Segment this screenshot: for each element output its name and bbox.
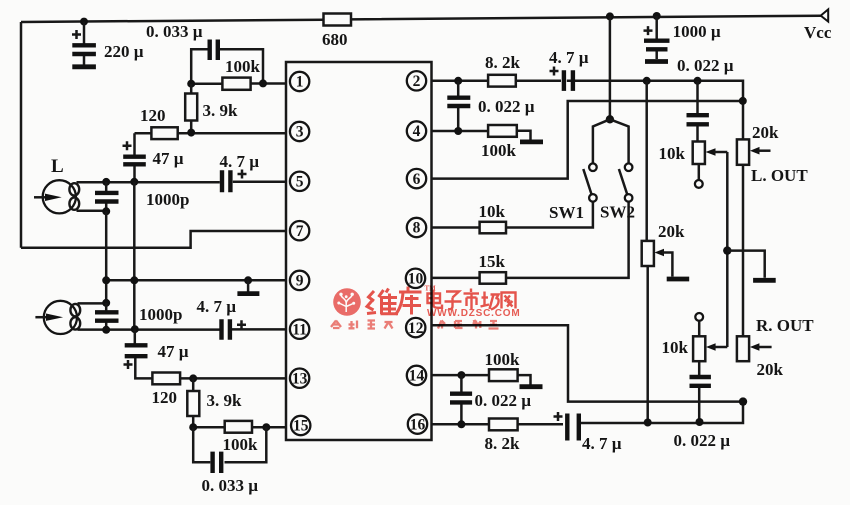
svg-text:WWW.DZSC.COM: WWW.DZSC.COM bbox=[427, 308, 520, 319]
svg-text:0. 022 µ: 0. 022 µ bbox=[677, 56, 734, 75]
wire pin12 bbox=[432, 325, 744, 401]
svg-text:100k: 100k bbox=[223, 435, 259, 454]
node pin4/0.022 bbox=[454, 127, 462, 135]
svg-text:100k: 100k bbox=[225, 57, 261, 76]
node pin14/0.022 bbox=[457, 371, 465, 379]
node 100k/pin1 bbox=[259, 79, 267, 87]
node top rail / 1000u bbox=[653, 12, 661, 20]
svg-text:14: 14 bbox=[409, 368, 425, 385]
connector R input jack bbox=[35, 301, 80, 334]
potentiometer 20k lower left bbox=[642, 241, 673, 277]
svg-text:SW2: SW2 bbox=[600, 203, 635, 222]
potentiometer 20k R.OUT bbox=[737, 336, 772, 361]
pin 7 bbox=[290, 221, 309, 240]
IC body bbox=[286, 62, 432, 440]
node pin9 ground bbox=[244, 276, 252, 284]
node jack shield bbox=[102, 207, 110, 215]
capacitor 1000u bbox=[644, 16, 670, 59]
ground 220u bbox=[72, 64, 96, 69]
potentiometer 10k left bbox=[693, 142, 728, 188]
node 20k column / pin16 line bbox=[644, 419, 652, 427]
capacitor 4.7u pin5 bbox=[222, 170, 230, 192]
svg-text:5: 5 bbox=[296, 174, 304, 191]
pin 15 bbox=[291, 416, 310, 435]
ground pin4 bbox=[520, 139, 543, 144]
capacitor 0.033u right loop bbox=[193, 427, 266, 473]
svg-text:12: 12 bbox=[408, 320, 424, 337]
pin 2 bbox=[407, 71, 426, 90]
resistor 8.2k pin2 bbox=[488, 75, 516, 87]
pin 9 bbox=[290, 271, 309, 290]
plus 220u bbox=[72, 30, 81, 39]
svg-text:3. 9k: 3. 9k bbox=[207, 391, 243, 410]
node 3.9k/pin3 bbox=[187, 129, 195, 137]
resistor 15k pin10 bbox=[480, 272, 506, 284]
potentiometer 20k L.OUT bbox=[737, 139, 771, 164]
capacitor 4.7u pin16 bbox=[567, 414, 579, 441]
watermark text 维 bbox=[367, 289, 398, 315]
capacitor 1000p left bbox=[95, 182, 119, 211]
ground 20k lower left bbox=[667, 277, 690, 282]
pin 16 bbox=[408, 414, 427, 433]
node pin2-line / 20k tap column bbox=[643, 77, 651, 85]
wire pin7 bbox=[21, 231, 286, 248]
wire switch feed from rail bbox=[609, 16, 612, 119]
resistor 3.9k right bbox=[187, 378, 199, 427]
wire 20k lower column bbox=[647, 81, 648, 423]
node 1000p bottom / pin11 bbox=[102, 326, 110, 334]
svg-text:R. OUT: R. OUT bbox=[756, 316, 814, 335]
svg-text:0. 033 µ: 0. 033 µ bbox=[146, 22, 203, 41]
node pin6 line / 20k column bbox=[739, 97, 747, 105]
wire pin13 bbox=[180, 377, 286, 380]
wire top supply rail bbox=[21, 16, 821, 22]
svg-text:8. 2k: 8. 2k bbox=[485, 434, 521, 453]
switch SW1 bbox=[583, 119, 610, 201]
svg-text:L: L bbox=[51, 156, 64, 177]
wire pin4 bbox=[432, 131, 531, 140]
wire pin15 bbox=[193, 426, 287, 429]
svg-text:0. 022 µ: 0. 022 µ bbox=[475, 391, 532, 410]
svg-text:3: 3 bbox=[296, 124, 304, 141]
capacitor 4.7u pin11 bbox=[222, 319, 230, 340]
resistor 120 left bbox=[151, 127, 177, 139]
svg-text:100k: 100k bbox=[481, 141, 517, 160]
svg-text:1: 1 bbox=[296, 74, 304, 91]
svg-text:10k: 10k bbox=[479, 202, 506, 221]
watermark slogan row bbox=[331, 321, 499, 329]
svg-text:8: 8 bbox=[413, 220, 421, 237]
node pin12/pin16 corner bbox=[739, 397, 747, 405]
wire L jack shield bbox=[77, 210, 107, 213]
plus 4.7u pin2 bbox=[550, 67, 559, 76]
svg-text:10k: 10k bbox=[662, 338, 689, 357]
plus 4.7u pin11 bbox=[237, 320, 246, 329]
svg-text:1000p: 1000p bbox=[146, 190, 189, 209]
capacitor 0.022u pins14-16 bbox=[450, 375, 472, 424]
node pin2-line / 10k top bbox=[694, 77, 702, 85]
svg-text:680: 680 bbox=[322, 30, 348, 49]
wire pin10 bbox=[432, 202, 629, 278]
pin 4 bbox=[407, 121, 426, 140]
pin 13 bbox=[290, 369, 309, 388]
svg-text:10: 10 bbox=[408, 271, 424, 288]
node 0.033/3.9k bbox=[187, 80, 195, 88]
svg-text:47 µ: 47 µ bbox=[153, 149, 184, 168]
svg-text:13: 13 bbox=[292, 370, 308, 387]
wire pin1 bbox=[191, 82, 286, 85]
svg-text:100k: 100k bbox=[485, 350, 521, 369]
pin 14 bbox=[407, 366, 426, 385]
node R jack top bbox=[102, 299, 110, 307]
svg-text:20k: 20k bbox=[752, 123, 779, 142]
svg-text:4. 7 µ: 4. 7 µ bbox=[197, 297, 237, 316]
svg-text:Vcc: Vcc bbox=[804, 23, 832, 42]
node pin9/x134 bbox=[130, 276, 138, 284]
switch SW2 bbox=[610, 119, 632, 201]
wire pin16 bbox=[432, 402, 744, 425]
ground pin14 bbox=[520, 384, 543, 389]
pin 8 bbox=[407, 218, 426, 237]
wire pin3 bbox=[135, 132, 287, 135]
svg-text:3. 9k: 3. 9k bbox=[203, 101, 239, 120]
wire ground bus x106 bbox=[105, 211, 108, 303]
resistor 3.9k left bbox=[185, 84, 197, 133]
svg-text:1000 µ: 1000 µ bbox=[673, 22, 721, 41]
node 3.9k/pin13 bbox=[189, 374, 197, 382]
svg-text:0. 022 µ: 0. 022 µ bbox=[674, 431, 731, 450]
watermark text 网 bbox=[502, 293, 516, 309]
node top rail / 220u bbox=[80, 18, 88, 26]
capacitor 10k right bottom bbox=[690, 361, 711, 422]
plus 4.7u pin16 bbox=[554, 412, 563, 421]
watermark logo disc bbox=[333, 288, 361, 316]
pin 1 bbox=[290, 72, 309, 91]
svg-text:20k: 20k bbox=[658, 222, 685, 241]
wire pin8 bbox=[432, 202, 593, 228]
resistor 100k pin4 bbox=[488, 125, 517, 137]
plus 47u right bbox=[124, 360, 133, 369]
node 100k/pin15 bbox=[262, 423, 270, 431]
svg-text:0. 033 µ: 0. 033 µ bbox=[202, 476, 259, 495]
svg-text:4. 7 µ: 4. 7 µ bbox=[549, 48, 589, 67]
capacitor 220u bbox=[72, 22, 96, 65]
svg-text:10k: 10k bbox=[659, 144, 686, 163]
node 3.9k/pin15 bbox=[189, 423, 197, 431]
ground 1000u bbox=[645, 59, 668, 64]
capacitor 1000p right bbox=[95, 303, 119, 330]
svg-text:SW1: SW1 bbox=[549, 203, 584, 222]
svg-text:7: 7 bbox=[296, 223, 304, 240]
wire wiper bus bbox=[726, 152, 729, 347]
capacitor 47u left bbox=[123, 133, 146, 181]
svg-text:47 µ: 47 µ bbox=[158, 342, 189, 361]
WATERMARK bbox=[331, 285, 520, 329]
pin 5 bbox=[290, 172, 309, 191]
watermark text 市 bbox=[464, 289, 480, 310]
Vcc terminal arrow bbox=[821, 9, 829, 21]
pin 6 bbox=[407, 169, 426, 188]
svg-text:8. 2k: 8. 2k bbox=[485, 53, 521, 72]
svg-text:220 µ: 220 µ bbox=[104, 42, 144, 61]
wire pin6 bbox=[432, 101, 744, 179]
wire pin11 bbox=[78, 328, 287, 331]
pin 12 bbox=[406, 318, 425, 337]
wire pin2 bbox=[432, 81, 744, 140]
node wiper bus ground tap bbox=[723, 246, 731, 254]
resistor 100k pin1 bbox=[222, 78, 250, 90]
resistor 120 right bbox=[152, 373, 180, 385]
resistor 8.2k pin16 bbox=[489, 419, 518, 431]
pin 10 bbox=[406, 269, 425, 288]
svg-text:11: 11 bbox=[292, 321, 307, 338]
svg-text:1000p: 1000p bbox=[139, 305, 182, 324]
watermark text 场 bbox=[481, 292, 499, 310]
wire pin9 bbox=[106, 279, 286, 282]
svg-text:120: 120 bbox=[140, 106, 166, 125]
wire pin5 bbox=[77, 180, 287, 183]
svg-text:4. 7 µ: 4. 7 µ bbox=[220, 152, 260, 171]
svg-text:15: 15 bbox=[293, 418, 309, 435]
wire bus x134 bbox=[133, 182, 136, 329]
capacitor 47u right bbox=[125, 329, 153, 378]
resistor 100k pin14 bbox=[489, 369, 518, 381]
node 47uR top / pin11 bbox=[131, 325, 139, 333]
node 1000p top bbox=[102, 178, 110, 186]
node pin2/0.022 bbox=[454, 77, 462, 85]
plus 1000u bbox=[644, 26, 653, 35]
watermark text 子 bbox=[445, 292, 462, 310]
resistor 10k pin8 bbox=[480, 222, 506, 234]
plus 4.7u pin5 bbox=[238, 170, 247, 179]
ground wiper bus bbox=[727, 251, 775, 281]
node switch feed split bbox=[606, 115, 614, 123]
pin 3 bbox=[290, 122, 309, 141]
svg-text:120: 120 bbox=[152, 388, 178, 407]
node top rail / sw feed bbox=[606, 12, 614, 20]
pin 11 bbox=[290, 320, 309, 339]
capacitor 10k top coupling bbox=[687, 81, 709, 142]
plus 47u left bbox=[123, 141, 132, 150]
svg-text:2: 2 bbox=[413, 73, 421, 90]
watermark text 库 bbox=[396, 287, 422, 315]
capacitor 0.022u pins2-4 bbox=[447, 81, 470, 131]
watermark text 电 bbox=[428, 290, 443, 308]
svg-text:0. 022 µ: 0. 022 µ bbox=[478, 97, 535, 116]
wire left rail + node at 220u bbox=[20, 22, 23, 248]
svg-text:4: 4 bbox=[413, 123, 421, 140]
node 10k cap / pin16 line bbox=[696, 418, 704, 426]
resistor 100k pin15 bbox=[225, 421, 252, 433]
capacitor 0.033u left loop bbox=[191, 40, 263, 84]
node pin9/x106 bbox=[102, 276, 110, 284]
svg-text:15k: 15k bbox=[479, 252, 506, 271]
potentiometer 10k right bbox=[693, 313, 727, 361]
capacitor 4.7u pin2 bbox=[564, 70, 573, 91]
svg-text:20k: 20k bbox=[757, 360, 784, 379]
ground pin9 bbox=[237, 280, 259, 293]
svg-text:16: 16 bbox=[410, 416, 426, 433]
node pin16/0.022 bbox=[457, 420, 465, 428]
svg-text:4. 7 µ: 4. 7 µ bbox=[582, 434, 622, 453]
connector L input jack bbox=[34, 180, 79, 213]
wire 20k column mid bbox=[742, 165, 745, 336]
resistor 680 bbox=[324, 14, 352, 26]
svg-text:9: 9 bbox=[296, 273, 304, 290]
svg-text:L. OUT: L. OUT bbox=[751, 166, 808, 185]
wire R jack top contact bbox=[78, 302, 107, 305]
wire pin14 bbox=[432, 375, 531, 385]
node 47u bottom bbox=[130, 178, 138, 186]
svg-text:6: 6 bbox=[413, 171, 421, 188]
